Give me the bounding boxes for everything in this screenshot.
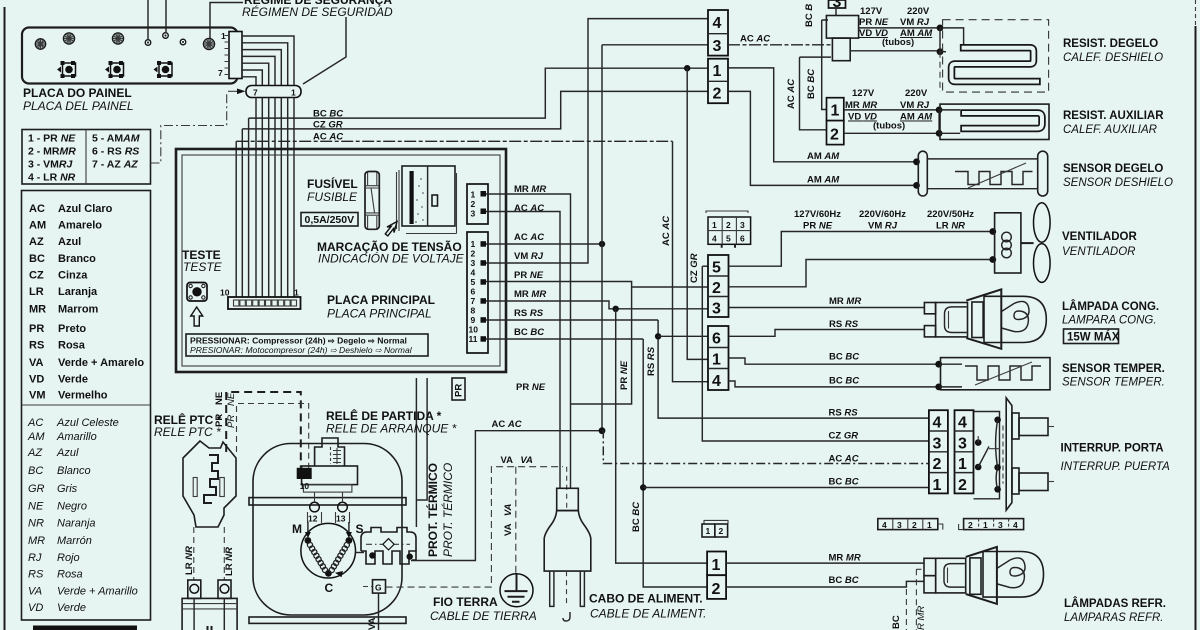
svg-text:AZ: AZ <box>27 447 43 459</box>
svg-text:CABO DE ALIMENT.: CABO DE ALIMENT. <box>589 592 703 606</box>
svg-text:2: 2 <box>719 526 724 536</box>
wire box4S to sensor temper <box>729 381 939 387</box>
wire box1S to sensor temper <box>729 358 939 364</box>
svg-text:PR NE: PR NE <box>516 382 546 393</box>
panel wire 6 <box>242 70 262 85</box>
freezer lamp trapezoid reflector <box>966 289 1001 348</box>
heater1 node link <box>939 28 941 52</box>
small 1-2 connector <box>702 520 728 537</box>
svg-text:BC BC: BC BC <box>829 575 859 586</box>
dashed wire PR to relay <box>237 404 309 468</box>
svg-text:9: 9 <box>471 315 476 325</box>
svg-text:MR MR: MR MR <box>829 296 861 307</box>
small connector 1-6 block <box>706 211 751 248</box>
panel LED B <box>63 33 74 44</box>
wire CN3 pin11 BC <box>486 338 643 340</box>
door switch flange <box>1006 398 1012 510</box>
svg-text:RELE DE ARRANQUE *: RELE DE ARRANQUE * <box>326 422 457 436</box>
RS branch to box6S <box>658 335 708 337</box>
svg-text:VM RJ: VM RJ <box>868 221 898 232</box>
svg-text:6: 6 <box>712 331 721 348</box>
svg-text:2: 2 <box>958 477 967 494</box>
svg-text:1: 1 <box>221 31 226 41</box>
PTC terminal left <box>188 580 201 598</box>
harness bundle wire 5 <box>268 98 270 298</box>
wire thermostat to heater1 <box>859 27 940 29</box>
PTC terminal right <box>218 580 231 598</box>
thermal protector diamond <box>383 539 394 550</box>
panel button 2 <box>105 61 124 78</box>
svg-text:RS: RS <box>28 569 44 581</box>
stub top box to thermostat <box>822 8 836 20</box>
panel wire 1 <box>242 36 294 85</box>
svg-text:AM AM: AM AM <box>807 151 840 162</box>
svg-text:1: 1 <box>958 456 967 473</box>
north connector column 1/2 <box>708 59 728 103</box>
svg-text:127V/60Hz: 127V/60Hz <box>794 209 841 220</box>
svg-text:VM RJ: VM RJ <box>514 251 544 262</box>
G terminal box <box>373 580 386 593</box>
wire CN3 pin3 VM <box>486 19 708 263</box>
svg-text:BC: BC <box>891 615 902 629</box>
svg-text:FIO TERRA: FIO TERRA <box>433 595 498 609</box>
svg-text:6 - RS RS: 6 - RS RS <box>92 146 139 158</box>
compressor base bar <box>249 617 406 623</box>
svg-text:4: 4 <box>712 373 721 390</box>
svg-text:1: 1 <box>706 526 711 536</box>
svg-text:SENSOR TEMPER.: SENSOR TEMPER. <box>1062 377 1165 389</box>
svg-text:1 - PR NE: 1 - PR NE <box>28 133 76 145</box>
BC-CZ trunk vertical mid <box>702 266 929 441</box>
wire conn1 to heater2 <box>844 109 939 111</box>
wire CN3 pin1 AC <box>486 243 602 245</box>
motor M node <box>305 537 312 544</box>
svg-text:R MR: R MR <box>916 606 927 630</box>
freezer lamp terminal 2 <box>924 326 935 337</box>
svg-text:3: 3 <box>998 520 1003 530</box>
dashed wire LR left <box>193 527 195 580</box>
wire conn2 to fridge lamp <box>726 581 924 587</box>
svg-text:AC AC: AC AC <box>786 79 797 109</box>
node AC at plug <box>599 427 606 434</box>
panel wire 3 <box>242 50 281 85</box>
PTC internal stepped element <box>204 455 218 503</box>
svg-text:2: 2 <box>712 581 721 598</box>
svg-text:BC BC: BC BC <box>829 376 859 387</box>
voltage selector arrow <box>383 219 401 238</box>
panel wire 2 <box>242 43 288 85</box>
G stub dash <box>363 586 373 588</box>
svg-text:1: 1 <box>712 220 717 230</box>
compressor shell <box>253 444 402 616</box>
svg-text:FUSIBLE: FUSIBLE <box>307 190 358 204</box>
svg-text:1: 1 <box>294 288 299 298</box>
fridge lamp terminal 2 <box>924 576 936 593</box>
svg-text:7: 7 <box>253 88 258 98</box>
VA drop wire below G <box>378 593 380 630</box>
PR branch to box2S <box>632 286 708 288</box>
test button arrow <box>191 307 203 326</box>
pointer line from label to capsule <box>303 17 346 84</box>
start relay leg walls <box>308 512 350 523</box>
svg-text:1: 1 <box>983 520 988 530</box>
right border top dashes <box>1195 0 1197 26</box>
thermal protector node left <box>369 552 375 558</box>
north connector column 4/3 <box>708 10 728 56</box>
dashed wire NE to relay <box>226 392 301 468</box>
thermal protector node right <box>407 553 413 559</box>
fuse rating box 0,5A/250V <box>301 213 358 227</box>
motor S terminal arrow <box>348 522 350 536</box>
panel wire 7 <box>242 77 256 85</box>
heater2 enclosure <box>940 104 1049 139</box>
svg-text:Naranja: Naranja <box>57 518 96 530</box>
harness bundle wire 1 <box>293 98 295 298</box>
svg-text:PR: PR <box>226 415 237 428</box>
svg-text:AC AC: AC AC <box>514 232 544 243</box>
fan blade top <box>1034 203 1051 242</box>
svg-text:RS RS: RS RS <box>829 408 859 419</box>
svg-text:2 - MRMR: 2 - MRMR <box>28 146 76 158</box>
start relay body <box>315 438 345 466</box>
panel button 3 <box>154 61 173 78</box>
AC wire drop to box4S <box>673 141 709 381</box>
svg-text:VM: VM <box>29 390 46 402</box>
svg-text:220V/50Hz: 220V/50Hz <box>927 209 974 220</box>
AC wire <box>236 140 672 142</box>
node heater2 b <box>936 130 943 137</box>
svg-text:SENSOR DEGELO: SENSOR DEGELO <box>1063 163 1163 175</box>
svg-text:2: 2 <box>968 520 973 530</box>
AM wire 2 (box2N to sensor) <box>728 91 917 185</box>
svg-text:127V: 127V <box>860 6 883 17</box>
svg-text:3: 3 <box>833 0 842 11</box>
small LED f <box>180 39 186 45</box>
fan blade bottom <box>1034 244 1051 283</box>
svg-text:1: 1 <box>927 520 932 530</box>
svg-text:MR: MR <box>28 535 45 547</box>
svg-text:4: 4 <box>1013 520 1018 530</box>
harness capsule 7..1 <box>246 86 301 98</box>
svg-text:2: 2 <box>933 456 942 473</box>
svg-text:Verde + Amarillo: Verde + Amarillo <box>57 586 138 598</box>
panel LED A <box>35 39 45 49</box>
wire from label to panel LED3 <box>210 3 243 41</box>
fridge lamp collar <box>970 558 981 594</box>
BC wire <box>249 68 708 118</box>
wire from top into panel LED1 <box>147 0 149 39</box>
svg-text:(tubos): (tubos) <box>882 37 914 48</box>
svg-text:6: 6 <box>740 234 745 244</box>
defrost fuse block <box>832 38 850 61</box>
fridge lamp filament <box>998 558 1026 588</box>
PTC relay body <box>183 441 236 527</box>
lamp drop wires <box>905 589 907 630</box>
small LED d <box>145 40 151 46</box>
wire CN3 pin9 RS <box>486 319 658 321</box>
svg-text:(tubos): (tubos) <box>873 121 905 132</box>
svg-text:M: M <box>292 522 302 536</box>
svg-text:PR NE: PR NE <box>514 270 544 281</box>
wire colour legend box <box>22 191 151 621</box>
svg-text:10: 10 <box>300 481 310 491</box>
svg-text:PLACA PRINCIPAL: PLACA PRINCIPAL <box>327 307 432 321</box>
wire CN2 pin1 to cord <box>486 194 571 488</box>
fan motor nodes <box>989 228 996 235</box>
door switch body frame <box>974 412 1000 499</box>
PRESSIONAR instruction box <box>186 334 428 356</box>
svg-text:VA: VA <box>29 357 44 369</box>
motor circle <box>301 523 356 578</box>
svg-text:VA: VA <box>28 586 42 598</box>
start relay plate <box>303 485 352 493</box>
PTC internal contact right <box>220 478 225 497</box>
svg-text:VM RJ: VM RJ <box>900 17 930 28</box>
svg-text:MR: MR <box>29 304 46 316</box>
svg-text:PR NE: PR NE <box>803 221 833 232</box>
svg-text:AM AM: AM AM <box>807 175 840 186</box>
wire from top into panel LED2 <box>165 0 167 32</box>
top cut connector box 3 <box>829 0 846 8</box>
bottom feed connector 2 <box>707 575 726 599</box>
svg-text:Verde: Verde <box>58 374 88 386</box>
svg-text:1: 1 <box>933 477 942 494</box>
svg-text:NR: NR <box>28 518 44 530</box>
svg-text:BC BC: BC BC <box>514 327 544 338</box>
svg-text:SENSOR DESHIELO: SENSOR DESHIELO <box>1063 177 1173 189</box>
svg-text:Cinza: Cinza <box>58 270 88 282</box>
svg-text:PR: PR <box>454 384 465 397</box>
svg-text:5: 5 <box>726 234 731 244</box>
svg-text:Verde + Amarelo: Verde + Amarelo <box>58 357 144 369</box>
legend divider <box>22 404 151 406</box>
BC wire to door switch <box>643 487 929 489</box>
AC riser to aux conn 2 <box>800 57 832 130</box>
freezer lamp inner bulb <box>945 307 967 333</box>
freezer lamp glass <box>984 296 1046 342</box>
BC drop to pin8 <box>248 118 250 297</box>
svg-text:C: C <box>325 581 334 595</box>
connector group CN2 (pins 1-3) <box>467 184 488 224</box>
svg-text:Azul: Azul <box>56 447 79 459</box>
left page border <box>4 7 6 630</box>
wire CN3 pin5 PR <box>486 282 632 405</box>
svg-text:2: 2 <box>712 280 721 297</box>
svg-text:Rojo: Rojo <box>57 552 80 564</box>
svg-text:220V: 220V <box>907 6 930 17</box>
temperature sensor body <box>941 358 1051 390</box>
node heater1 a <box>937 25 944 32</box>
svg-text:0,5A/250V: 0,5A/250V <box>305 214 355 226</box>
svg-text:PLACA DO PAINEL: PLACA DO PAINEL <box>23 86 132 100</box>
AC drop to pin10 <box>235 141 237 297</box>
svg-text:AC AC: AC AC <box>829 454 859 465</box>
PR mini connector box <box>452 378 465 400</box>
svg-text:AC AC: AC AC <box>661 216 672 246</box>
svg-text:INDICACIÓN DE VOLTAJE: INDICACIÓN DE VOLTAJE <box>318 251 465 266</box>
sensor temper nodes <box>935 361 942 368</box>
node sensor degelo a <box>913 158 920 165</box>
svg-text:2: 2 <box>726 220 731 230</box>
fridge lamp terminal 1 <box>924 558 936 575</box>
svg-text:SENSOR TEMPER.: SENSOR TEMPER. <box>1062 363 1165 375</box>
plug neck <box>557 488 579 510</box>
svg-text:AC: AC <box>29 203 45 215</box>
svg-text:CZ GR: CZ GR <box>829 431 859 442</box>
plug body <box>544 511 591 572</box>
earth prong J hook <box>563 612 570 621</box>
svg-text:PR: PR <box>29 323 44 335</box>
BC trunk to box5S <box>702 265 708 267</box>
svg-text:PROT. TÉRMICO: PROT. TÉRMICO <box>425 463 440 557</box>
link motor to protector <box>355 552 364 554</box>
svg-text:Amarillo: Amarillo <box>56 431 97 443</box>
svg-text:CZ: CZ <box>29 270 44 282</box>
svg-text:Negro: Negro <box>57 501 87 513</box>
wire protector riser B <box>416 378 427 500</box>
right page border <box>1195 26 1197 630</box>
svg-text:RS RS: RS RS <box>514 308 544 319</box>
svg-text:Blanco: Blanco <box>57 465 91 477</box>
svg-text:INTERRUP. PUERTA: INTERRUP. PUERTA <box>1061 461 1171 473</box>
start relay contact 13 <box>338 502 348 512</box>
freezer lamp terminal 1 <box>924 303 935 314</box>
svg-text:RELE PTC *: RELE PTC * <box>154 425 221 439</box>
svg-text:PRESIONAR: Motocompresor (24h): PRESIONAR: Motocompresor (24h) ⇨ Deshiel… <box>190 345 413 355</box>
svg-text:RS RS: RS RS <box>829 319 859 330</box>
svg-text:INTERRUP. PORTA: INTERRUP. PORTA <box>1061 443 1164 455</box>
motor winding left coil <box>307 542 327 572</box>
fuse symbol F1 <box>365 172 379 230</box>
earth electrode symbol <box>500 574 533 607</box>
svg-text:RJ: RJ <box>28 552 42 564</box>
svg-text:AC AC: AC AC <box>740 34 770 45</box>
svg-text:Verde: Verde <box>57 602 86 614</box>
svg-text:VA VA: VA VA <box>501 455 534 466</box>
svg-text:VD: VD <box>29 374 44 386</box>
svg-text:Marrón: Marrón <box>57 535 92 547</box>
svg-text:2: 2 <box>471 199 476 209</box>
heater2 feed stubs <box>939 110 960 133</box>
svg-text:4: 4 <box>933 415 942 432</box>
MR trunk vertical <box>616 309 707 563</box>
svg-text:RESIST. DEGELO: RESIST. DEGELO <box>1063 38 1158 50</box>
wire fuse to heater1 <box>850 50 940 52</box>
svg-text:FUSÍVEL: FUSÍVEL <box>307 176 358 191</box>
svg-text:Azul Celeste: Azul Celeste <box>56 417 119 429</box>
svg-text:AZ: AZ <box>29 236 44 248</box>
defrost thermostat block <box>826 16 858 39</box>
start relay terminal 10 <box>297 468 312 479</box>
motor M terminal arrow <box>307 522 309 536</box>
wire conn1 to fridge lamp <box>726 562 924 564</box>
BC trunk vertical <box>643 339 707 587</box>
svg-text:8: 8 <box>471 306 476 316</box>
defrost sensor body <box>918 151 1047 196</box>
svg-text:12: 12 <box>308 514 318 524</box>
CZ trunk vertical <box>687 68 708 359</box>
svg-text:Gris: Gris <box>57 483 78 495</box>
svg-text:AM: AM <box>29 220 46 232</box>
svg-text:NE: NE <box>214 392 225 405</box>
heater1 second feed <box>940 51 946 53</box>
motor winding right coil <box>329 542 349 572</box>
svg-text:BC B: BC B <box>804 4 815 27</box>
svg-text:AC: AC <box>27 417 43 429</box>
panel wire 4 <box>242 56 275 85</box>
svg-text:13: 13 <box>336 514 346 524</box>
panel LED C <box>112 33 123 44</box>
door plunger bottom <box>1012 468 1019 494</box>
wire box3N to AC trunk <box>602 44 708 46</box>
svg-text:Preto: Preto <box>58 323 86 335</box>
panel wire 5 <box>242 63 269 85</box>
svg-text:AC AC: AC AC <box>514 203 544 214</box>
panel connector pin ticks <box>225 36 230 75</box>
svg-text:PR NE: PR NE <box>619 360 630 390</box>
node heater1 b <box>937 48 944 55</box>
svg-text:3: 3 <box>713 38 722 55</box>
svg-text:1: 1 <box>831 103 840 120</box>
heater1 feed step <box>940 28 964 44</box>
PTC base block <box>182 598 237 630</box>
AM wire 1 (box1N to sensor) <box>728 68 917 162</box>
node heater2 a <box>936 107 943 114</box>
node sensor degelo b <box>913 182 920 189</box>
svg-text:G: G <box>375 583 382 593</box>
door switch right column 4/3/1/2 <box>955 410 974 494</box>
svg-text:5: 5 <box>712 260 721 277</box>
fan motor coil <box>1002 232 1012 242</box>
AC trunk vertical <box>601 45 603 431</box>
motor C arrow <box>335 571 343 577</box>
harness bundle wire 4 <box>274 98 276 298</box>
wire CN2 pin3 to cord <box>486 212 560 489</box>
svg-text:LR: LR <box>29 286 44 298</box>
heater1 dashed drop <box>939 52 941 92</box>
svg-text:3: 3 <box>712 301 721 318</box>
panel connector J1 <box>229 32 242 79</box>
pin strip 2134 <box>959 519 1024 530</box>
svg-text:TESTE: TESTE <box>183 260 223 274</box>
svg-text:VENTILADOR: VENTILADOR <box>1062 246 1136 258</box>
svg-text:RS: RS <box>29 340 44 352</box>
svg-text:CALEF. AUXILIAR: CALEF. AUXILIAR <box>1063 124 1157 136</box>
svg-text:PROT. TÉRMICO: PROT. TÉRMICO <box>440 463 455 557</box>
fridge lamp glass <box>983 552 1044 598</box>
svg-text:220V/60Hz: 220V/60Hz <box>859 209 906 220</box>
svg-text:BC BC: BC BC <box>829 477 859 488</box>
svg-text:BC BC: BC BC <box>806 69 817 99</box>
svg-text:3: 3 <box>958 436 967 453</box>
svg-text:LAMPARAS REFR.: LAMPARAS REFR. <box>1064 612 1163 624</box>
CZ wire <box>242 91 708 128</box>
start relay coil marks <box>333 448 341 464</box>
panel board (PLACA DO PAINEL) <box>22 28 238 84</box>
south connector column 6/1/4 <box>708 326 729 390</box>
svg-text:4: 4 <box>471 268 476 278</box>
svg-text:NE: NE <box>226 392 237 406</box>
svg-text:3: 3 <box>471 209 476 219</box>
node AC junction top <box>599 241 605 247</box>
panel LED G <box>203 38 214 49</box>
door switch mechanism <box>975 417 1001 493</box>
svg-text:LÂMPADAS REFR.: LÂMPADAS REFR. <box>1064 597 1166 610</box>
wire box6S to lamp cong RS <box>729 330 925 337</box>
svg-text:3: 3 <box>897 520 902 530</box>
svg-text:NE: NE <box>28 501 44 513</box>
PLACA PRINCIPAL outer box <box>176 149 506 372</box>
